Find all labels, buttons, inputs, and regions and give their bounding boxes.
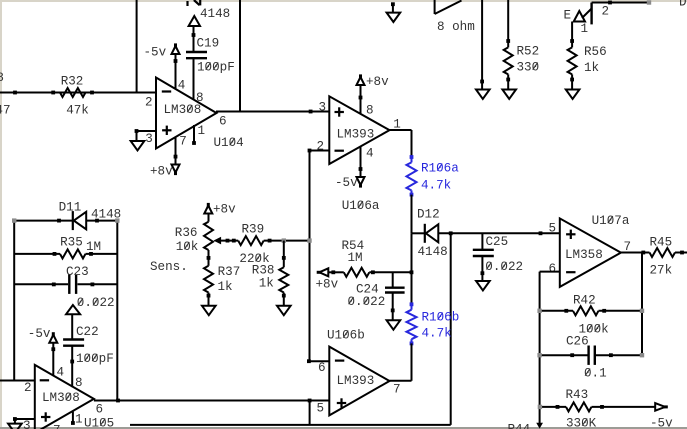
svg-text:3: 3 xyxy=(23,419,31,429)
svg-text:1: 1 xyxy=(581,22,589,36)
svg-text:330K: 330K xyxy=(566,417,597,429)
svg-text:R37: R37 xyxy=(218,265,241,279)
power arrow -5v U104 pin4 xyxy=(174,43,177,47)
resistor R45 27k xyxy=(650,248,675,257)
svg-text:4.7k: 4.7k xyxy=(421,179,451,193)
svg-text:47: 47 xyxy=(0,103,11,117)
svg-text:LM393: LM393 xyxy=(337,128,375,142)
svg-text:D12: D12 xyxy=(417,208,440,222)
svg-text:LM358: LM358 xyxy=(565,248,603,262)
svg-text:7: 7 xyxy=(53,424,61,429)
svg-text:C22: C22 xyxy=(76,325,99,339)
ground below R56 xyxy=(566,90,580,99)
power arrow -5v right xyxy=(664,405,668,408)
svg-text:6: 6 xyxy=(96,403,104,417)
svg-text:1k: 1k xyxy=(218,280,233,294)
svg-text:+8v: +8v xyxy=(213,203,236,217)
pin 6 wire U107a xyxy=(540,271,560,273)
svg-text:1: 1 xyxy=(198,124,206,138)
op-amp U107a LM358 xyxy=(560,218,621,287)
svg-text:LM308: LM308 xyxy=(164,103,202,117)
svg-text:R52: R52 xyxy=(517,45,540,59)
ground symbol top middle x=393 xyxy=(392,3,394,13)
pin 6 wire U106b xyxy=(309,360,329,362)
ground below R37 xyxy=(202,306,216,315)
svg-text:0.1: 0.1 xyxy=(584,367,607,381)
power arrow -5v U105 pin4 xyxy=(52,332,55,336)
svg-text:R32: R32 xyxy=(61,75,84,89)
svg-text:1M: 1M xyxy=(348,251,363,265)
ground below C25 xyxy=(476,281,490,290)
svg-text:R45: R45 xyxy=(650,236,673,250)
capacitor C24 0.022 xyxy=(392,272,394,287)
arrowhead at bottom of rail xyxy=(537,423,542,427)
pin 2 wire U106a xyxy=(310,150,330,152)
pin 4 wire U105 xyxy=(52,343,54,376)
diode arrow 4148 top xyxy=(189,16,200,26)
potentiometer R36 10k xyxy=(208,214,210,222)
up arrow above C22 xyxy=(66,305,80,314)
capacitor C22 100pF xyxy=(63,338,84,340)
pin 4 wire to -5v xyxy=(175,55,177,89)
svg-text:8: 8 xyxy=(75,376,83,390)
svg-text:8: 8 xyxy=(0,71,4,85)
svg-text:5: 5 xyxy=(549,222,557,236)
wire U106b output xyxy=(390,380,412,382)
svg-text:27k: 27k xyxy=(650,264,673,278)
svg-text:2: 2 xyxy=(317,140,325,154)
svg-text:8: 8 xyxy=(366,104,374,118)
resistor R106b 4.7k blue xyxy=(410,302,414,306)
svg-text:+8v: +8v xyxy=(150,165,173,179)
resistor R39 220k xyxy=(238,236,263,245)
partial letters at top edge xyxy=(186,1,188,6)
svg-text:U105: U105 xyxy=(84,417,114,429)
resistor R38 1k xyxy=(283,241,285,268)
svg-text:LM308: LM308 xyxy=(42,391,80,405)
svg-text:8 ohm: 8 ohm xyxy=(437,20,475,34)
svg-text:100pF: 100pF xyxy=(76,352,114,366)
op-amp U105 LM308 xyxy=(35,365,94,429)
svg-text:10k: 10k xyxy=(176,240,199,254)
capacitor C19 100pF xyxy=(186,51,207,53)
resistor R106a 4.7k blue xyxy=(410,155,414,159)
svg-text:4: 4 xyxy=(366,147,374,161)
resistor R52 330 xyxy=(507,0,509,47)
resistor R37 1k xyxy=(204,266,213,293)
window top border xyxy=(0,0,687,2)
wire D12 node to R106b xyxy=(411,233,413,304)
ground below speaker wire xyxy=(476,90,490,99)
op-amp U106b LM393 xyxy=(329,347,389,416)
svg-text:R36: R36 xyxy=(175,226,198,240)
wire right rail x=642 xyxy=(641,253,643,356)
op-amp U104 LM308 xyxy=(156,78,217,149)
wire vertical from top at x=136.6 xyxy=(136,0,138,93)
svg-text:LM393: LM393 xyxy=(337,374,375,388)
power arrow +8v left R54 xyxy=(317,271,321,274)
wire U106a output xyxy=(389,129,412,131)
capacitor C25 0.022 xyxy=(481,233,483,249)
svg-text:4: 4 xyxy=(57,366,65,380)
wire right rail x=117.3 xyxy=(116,221,118,401)
svg-text:R56: R56 xyxy=(584,45,607,59)
svg-text:E: E xyxy=(564,9,572,23)
resistor R35 1M xyxy=(14,253,60,255)
ground at U104 pin3 xyxy=(131,141,145,150)
pin 8 wire to +8v xyxy=(360,86,362,114)
svg-text:U104: U104 xyxy=(214,136,244,150)
svg-text:+8v: +8v xyxy=(366,75,389,89)
svg-text:4148: 4148 xyxy=(418,245,448,259)
window left border xyxy=(0,0,2,429)
pin 1 stub U105 xyxy=(72,412,74,423)
wire input to U104 pin2 xyxy=(0,92,156,94)
svg-text:U107a: U107a xyxy=(592,214,630,228)
svg-text:U106b: U106b xyxy=(327,329,365,343)
svg-text:R35: R35 xyxy=(60,236,83,250)
power arrow -5v U106a pin4 xyxy=(359,184,362,188)
svg-text:330: 330 xyxy=(517,61,540,75)
svg-text:-5v: -5v xyxy=(650,417,673,429)
svg-text:5: 5 xyxy=(317,402,325,416)
svg-text:R44: R44 xyxy=(508,423,531,429)
power arrow +8v U104 pin7 xyxy=(174,171,177,175)
resistor R43 330K xyxy=(540,406,566,408)
svg-text:47k: 47k xyxy=(66,104,89,118)
pin 4 wire to -5v xyxy=(360,146,362,176)
svg-text:R106a: R106a xyxy=(421,162,459,176)
power arrow +8v above R36 xyxy=(207,203,210,207)
resistor R42 100k xyxy=(540,310,573,312)
svg-text:7: 7 xyxy=(393,383,401,397)
wire pin5 drop to bottom wire xyxy=(309,401,311,425)
svg-text:D6: D6 xyxy=(679,0,687,9)
svg-text:C26: C26 xyxy=(566,335,589,349)
wire U107a output xyxy=(621,252,650,254)
speaker 8 ohm partial xyxy=(434,0,436,14)
capacitor C26 0.1 xyxy=(540,354,588,356)
svg-text:6: 6 xyxy=(219,114,227,128)
ground below C24 xyxy=(387,320,401,329)
svg-text:D11: D11 xyxy=(59,201,82,215)
svg-text:C19: C19 xyxy=(197,36,220,50)
resistor R56 1k xyxy=(568,47,577,74)
wire D12 to U107a pin5 xyxy=(438,232,560,234)
wire top right xyxy=(592,2,649,4)
pin 1 stub xyxy=(193,125,195,143)
svg-text:C25: C25 xyxy=(486,235,509,249)
svg-text:4.7k: 4.7k xyxy=(422,327,452,341)
svg-text:3: 3 xyxy=(319,101,327,115)
op-amp U106a LM393 xyxy=(329,96,389,164)
wiper arrow R36 xyxy=(215,238,221,244)
svg-text:-5v: -5v xyxy=(28,327,51,341)
pin 2 wire U105 xyxy=(0,380,35,382)
svg-text:6: 6 xyxy=(549,262,557,276)
diode D11 4148 xyxy=(14,220,72,222)
resistor R32 xyxy=(60,88,85,97)
svg-text:1k: 1k xyxy=(259,277,274,291)
svg-text:100pF: 100pF xyxy=(197,61,235,75)
capacitor C23 0.022 xyxy=(14,283,68,285)
svg-text:4148: 4148 xyxy=(200,7,230,21)
svg-text:R106b: R106b xyxy=(422,311,460,325)
pin 8 wire xyxy=(193,59,195,100)
svg-text:-5v: -5v xyxy=(335,176,358,190)
wire vertical x=240 to top xyxy=(239,0,241,112)
pin 7 wire to +8v xyxy=(175,137,177,165)
svg-text:3: 3 xyxy=(145,132,153,146)
wire U104 output to U106a pin3 xyxy=(216,111,329,113)
wire left rail x=539.6 down xyxy=(539,272,541,424)
svg-text:4148: 4148 xyxy=(91,208,121,222)
svg-text:2: 2 xyxy=(24,381,32,395)
svg-text:Sens.: Sens. xyxy=(150,260,188,274)
wire rail x=309.5 down to U106b pin6 xyxy=(309,151,311,362)
svg-text:C23: C23 xyxy=(66,265,89,279)
pin 3 wire and ground U105 xyxy=(15,418,35,420)
ground below R38 xyxy=(277,306,291,315)
wire vertical x=482.1 to ground xyxy=(481,0,483,89)
svg-text:R43: R43 xyxy=(566,388,589,402)
svg-text:1M: 1M xyxy=(86,240,101,254)
svg-text:8: 8 xyxy=(196,91,204,105)
svg-text:R42: R42 xyxy=(573,294,596,308)
svg-text:7: 7 xyxy=(179,134,187,148)
svg-text:R39: R39 xyxy=(242,223,265,237)
svg-text:1k: 1k xyxy=(584,61,599,75)
wire R106a to D12 node xyxy=(411,195,413,234)
svg-text:-5v: -5v xyxy=(144,46,167,60)
svg-text:4: 4 xyxy=(178,78,186,92)
resistor R54 1M xyxy=(329,271,344,273)
wire vertical x=450.7 to bottom wire xyxy=(450,233,452,425)
ground below R52 xyxy=(502,90,516,99)
wire bottom horizontal y=424.9 xyxy=(130,424,451,426)
pin 3 wire and ground xyxy=(137,130,157,132)
svg-text:6: 6 xyxy=(318,361,326,375)
wire below E to R56 xyxy=(571,22,573,48)
power arrow +8v U106a pin8 xyxy=(359,74,362,78)
svg-text:+8v: +8v xyxy=(316,278,339,292)
svg-text:1: 1 xyxy=(75,413,83,427)
svg-text:2: 2 xyxy=(145,96,153,110)
wire R106b to U106b output xyxy=(411,343,413,380)
wire U105 output to U106b pin5 xyxy=(94,400,329,402)
wire left rail x=14.2 xyxy=(13,221,15,381)
bottom scrollbar band xyxy=(0,427,687,429)
svg-text:U106a: U106a xyxy=(342,199,380,213)
svg-text:2: 2 xyxy=(602,4,610,18)
